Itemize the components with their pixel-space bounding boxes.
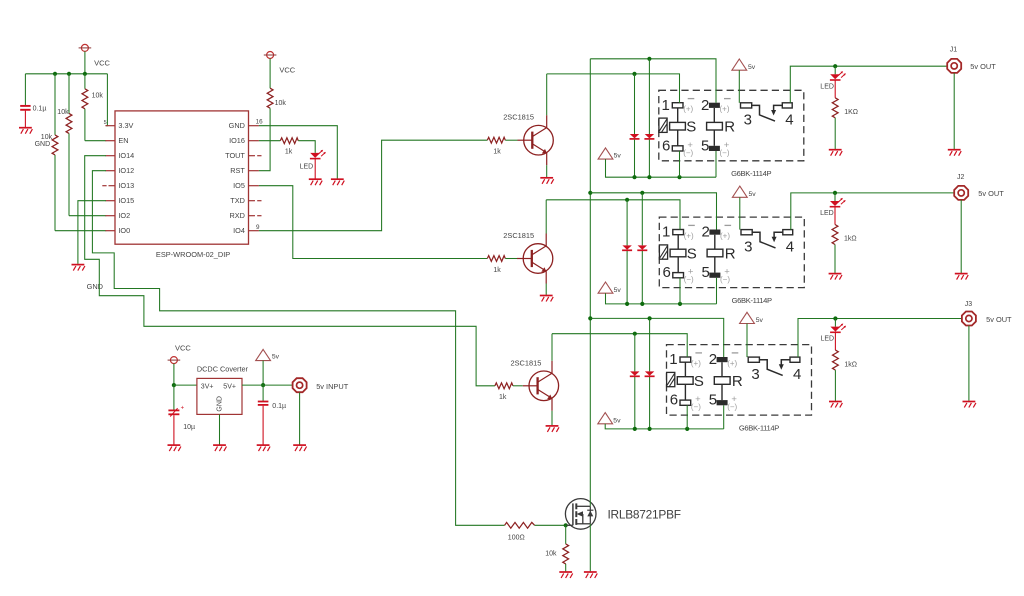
svg-text:IO0: IO0 (118, 226, 130, 235)
svg-text:IO13: IO13 (118, 181, 134, 190)
junction rail-R2 (67, 72, 71, 76)
resistor R2 10k IO2 pullup (66, 74, 106, 216)
svg-text:5v: 5v (614, 287, 622, 294)
svg-text:IO12: IO12 (118, 166, 134, 175)
resistor R3 10k IO0 pullup (52, 74, 106, 231)
svg-text:1k: 1k (499, 394, 507, 401)
wire Q2 collector to K2 pin1 (546, 200, 680, 230)
wire K3 pin6 stub (686, 405, 688, 429)
svg-text:LED: LED (820, 210, 834, 217)
svg-text:RXD: RXD (229, 211, 244, 220)
svg-text:10k: 10k (92, 92, 104, 99)
svg-text:10k: 10k (57, 109, 69, 116)
svg-text:5v: 5v (272, 354, 280, 361)
connector J3 (962, 312, 976, 326)
ground R11 (829, 150, 842, 156)
power flag VCC (79, 44, 92, 51)
wire D1 cathode (314, 159, 316, 179)
junction K2 LED tap (833, 191, 837, 195)
junction bus relay2 (588, 191, 592, 195)
MOSFET Q4 IRLB8721PBF (565, 499, 596, 530)
svg-text:ESP-WROOM-02_DIP: ESP-WROOM-02_DIP (156, 250, 230, 259)
wire R9 to gate (535, 524, 567, 526)
junction K1 LED tap (833, 64, 837, 68)
resistor R11 1Kohm (832, 98, 838, 118)
junction K3 rail d1 (633, 427, 637, 431)
ground C3 (257, 445, 270, 451)
svg-text:5v: 5v (749, 191, 757, 198)
junction VCC3-C2 (172, 383, 176, 387)
resistor R13 1kohm (833, 350, 839, 370)
wire R13 to ground (834, 370, 836, 401)
svg-text:IO14: IO14 (118, 151, 134, 160)
wire R7 to Q2 base (505, 258, 517, 260)
diode D5 K2 set flyback (622, 200, 632, 304)
diode D2 K1 set flyback (630, 74, 640, 177)
svg-text:EN: EN (118, 136, 128, 145)
ground J2 (955, 274, 968, 280)
svg-text:1k: 1k (285, 148, 293, 155)
junction K1 rail d1 (632, 175, 636, 179)
power 5v K2 rail (598, 282, 613, 293)
svg-text:TXD: TXD (230, 196, 245, 205)
ground R10 (559, 572, 572, 578)
svg-text:0.1µ: 0.1µ (33, 106, 47, 113)
power 5v K1 pin3 (732, 59, 747, 70)
svg-text:10µ: 10µ (183, 424, 195, 431)
wire Q3 emitter (551, 411, 553, 426)
svg-text:DCDC Coverter: DCDC Coverter (197, 364, 249, 373)
svg-text:5v INPUT: 5v INPUT (316, 382, 349, 391)
ground PS1 (213, 445, 226, 451)
wire K2 5v rail (606, 293, 717, 304)
wire J1 to ground (953, 73, 955, 149)
wire R5 to LED D1 (298, 141, 315, 153)
resistor R9 100ohm gate (505, 522, 535, 528)
wire VCC3 to DCDC (174, 384, 197, 386)
junction K3 S-line diode (633, 332, 637, 336)
junction K1 S-line diode (632, 72, 636, 76)
svg-text:J2: J2 (957, 174, 965, 181)
LED D10 indicator (830, 324, 846, 333)
junction K3 rail d2 (648, 427, 652, 431)
transistor Q1 2SC1815 (518, 115, 554, 165)
svg-text:5v: 5v (614, 153, 622, 160)
capacitor C1 0.1u (20, 74, 30, 127)
power 5v K1 rail (598, 148, 613, 159)
wire D10 to R13 (834, 332, 836, 350)
svg-text:1kΩ: 1kΩ (844, 361, 857, 368)
module PS1 DCDC converter (197, 378, 242, 414)
LED D7 indicator (830, 198, 846, 207)
wire J3 to ground (968, 326, 970, 401)
wire Q1 collector to K1 pin1 (547, 74, 680, 103)
wire LED3 anode (834, 319, 836, 327)
wire GND pin16 (259, 126, 337, 179)
wire K2 pin3 5v stem (739, 197, 741, 229)
capacitor C2 10u (168, 385, 184, 444)
svg-text:16: 16 (256, 119, 264, 126)
wire 3.3V riser (106, 74, 107, 126)
wire Q3 collector (551, 334, 553, 361)
junction K2 rail d1 (625, 302, 629, 306)
diode D9 K3 reset flyback (645, 318, 655, 429)
svg-text:5V+: 5V+ (223, 384, 236, 391)
svg-text:2SC1815: 2SC1815 (511, 359, 542, 368)
wire IO12 to R9 gate (92, 171, 504, 526)
wire K2 pin6 stub (679, 278, 681, 304)
wire PS1 GND pin (219, 414, 221, 444)
svg-text:LED: LED (820, 83, 834, 90)
ground Q3 (546, 426, 559, 432)
wire K1 pin4 to J1 (790, 66, 947, 103)
svg-text:1k: 1k (493, 149, 501, 156)
svg-text:2SC1815: 2SC1815 (503, 112, 534, 121)
wire K3 5v rail (605, 424, 724, 429)
power 5v K2 pin3 (732, 186, 747, 197)
svg-text:1KΩ: 1KΩ (844, 109, 858, 116)
wire K1 pin6 stub (679, 151, 681, 177)
svg-text:5v: 5v (756, 317, 764, 324)
junction K3 LED tap (833, 316, 837, 320)
ground Q1 (540, 178, 553, 184)
junction K3 R-line diode (648, 316, 652, 320)
junction K2 S-line diode (625, 198, 629, 202)
resistor R10 10k gate pulldown (563, 525, 569, 571)
relay K3 G6BK-1114P (667, 345, 812, 433)
wire R8 to Q3 base (513, 385, 523, 387)
wire LED1 anode (834, 66, 836, 74)
svg-text:VCC: VCC (279, 66, 295, 75)
svg-text:5v OUT: 5v OUT (978, 189, 1004, 198)
junction gate-R10 (564, 523, 568, 527)
ground R13 (829, 402, 842, 408)
wire J4 to ground (299, 392, 301, 444)
svg-text:0.1µ: 0.1µ (272, 403, 286, 410)
svg-text:GND: GND (216, 396, 223, 412)
wire R12 to ground (834, 245, 836, 274)
wire IO4 to R6 (259, 140, 487, 231)
svg-text:RST: RST (230, 166, 245, 175)
svg-text:5v OUT: 5v OUT (970, 62, 996, 71)
junction K2 rail pin6 (678, 302, 682, 306)
power 5v PS1 (256, 349, 271, 360)
svg-text:1k: 1k (493, 267, 501, 274)
ground D1 (309, 179, 322, 185)
wire PS1 to J4 (242, 384, 293, 386)
svg-text:10k: 10k (545, 550, 557, 557)
wire D4 to R11 (834, 80, 836, 98)
ground J4 (293, 445, 306, 451)
wire IO16 to R5 (259, 140, 280, 142)
diode D3 K1 reset flyback (644, 59, 654, 177)
wire J2 to ground (960, 200, 962, 273)
junction K3 rail pin6 (685, 427, 689, 431)
ground J1 (948, 150, 961, 156)
svg-text:5v OUT: 5v OUT (986, 315, 1012, 324)
wire LED2 anode (834, 193, 836, 201)
svg-text:100Ω: 100Ω (508, 534, 525, 541)
svg-text:TOUT: TOUT (225, 151, 245, 160)
wire Q1 emitter (546, 165, 548, 177)
wire R6 to Q1 base (505, 139, 517, 141)
power flag VCC3 (168, 357, 181, 364)
junction K2 R-line diode (640, 191, 644, 195)
LED D4 indicator (830, 71, 846, 80)
wire reset bus to K2 pin2 (590, 193, 716, 230)
svg-text:10k: 10k (41, 134, 53, 141)
wire Q4 source (589, 524, 591, 572)
svg-text:GND: GND (87, 282, 103, 291)
wire K2 pin4 to J2 (791, 193, 954, 230)
wire VCC rail (25, 73, 107, 75)
wire Q1 collector (546, 74, 548, 115)
resistor R4 10k RST pullup (259, 59, 273, 171)
wire VCC3 stem (173, 364, 175, 386)
resistor R1 10k EN pullup (82, 74, 106, 141)
ground Q2 (540, 296, 553, 302)
diode D6 K2 reset flyback (637, 193, 647, 304)
junction K2 rail d2 (640, 302, 644, 306)
capacitor C3 0.1u (258, 385, 269, 444)
resistor R5 1k LED (280, 138, 298, 144)
svg-text:J3: J3 (965, 301, 973, 308)
connector J2 (954, 186, 968, 200)
wire Q2 collector (545, 200, 547, 234)
transistor Q2 2SC1815 (517, 234, 553, 284)
connector J4 5v input (293, 378, 307, 392)
svg-text:LED: LED (300, 164, 314, 171)
svg-text:1kΩ: 1kΩ (844, 236, 857, 243)
ground C2 (168, 445, 181, 451)
wire K3 pin5 stub (723, 405, 725, 429)
wire D7 to R12 (834, 207, 836, 225)
ground IO15 (72, 265, 85, 271)
svg-text:GND: GND (229, 121, 245, 130)
diode D8 K3 set flyback (630, 334, 640, 429)
svg-text:5v: 5v (613, 417, 621, 424)
junction 5v-C3 (261, 383, 265, 387)
wire K1 5v rail (606, 159, 717, 177)
wire K3 pin3 5v stem (746, 324, 748, 358)
wire IO5 to R7 (259, 186, 487, 259)
wire Q2 emitter (545, 284, 547, 295)
ground C1 (19, 128, 32, 134)
svg-text:2SC1815: 2SC1815 (503, 231, 534, 240)
wire VCC stem (84, 51, 86, 73)
junction K1 rail pin6 (677, 175, 681, 179)
wire K2 pin5 stub (716, 278, 718, 304)
svg-text:3.3V: 3.3V (118, 121, 133, 130)
connector J1 (947, 59, 961, 73)
ground R12 (829, 274, 842, 280)
wire Q3 collector to K3 pin1 (552, 334, 687, 357)
power flag VCC2 (264, 52, 277, 59)
wire K1 pin5 stub (715, 151, 717, 177)
svg-text:5: 5 (104, 120, 107, 126)
svg-text:IO5: IO5 (233, 181, 245, 190)
svg-text:LED: LED (821, 336, 835, 343)
IC U1 ESP-WROOM-02_DIP (102, 111, 263, 244)
junction K1 rail d2 (647, 175, 651, 179)
svg-text:VCC: VCC (94, 58, 110, 67)
svg-text:VCC: VCC (175, 343, 191, 352)
wire K3 pin4 to J3 (798, 319, 962, 358)
svg-text:3V+: 3V+ (201, 384, 214, 391)
svg-text:IO4: IO4 (233, 226, 245, 235)
ground J3 (963, 402, 976, 408)
svg-text:10k: 10k (275, 100, 287, 107)
LED D1 (310, 150, 326, 159)
resistor R12 1kohm (832, 225, 838, 245)
svg-text:5v: 5v (748, 64, 756, 71)
transistor Q3 2SC1815 (523, 361, 559, 411)
wire IO14 to R8 (85, 156, 495, 386)
wire R11 to ground (834, 118, 836, 149)
svg-text:IO16: IO16 (229, 136, 245, 145)
resistor R8 1k base Q3 (495, 383, 513, 389)
wire IO15 to ground (78, 201, 106, 264)
svg-text:IRLB8721PBF: IRLB8721PBF (608, 507, 681, 521)
svg-text:IO2: IO2 (118, 211, 130, 220)
relay K1 G6BK-1114P (659, 90, 804, 178)
junction K1 R-line diode (647, 57, 651, 61)
junction bus relay3 (588, 316, 592, 320)
relay K2 G6BK-1114P (659, 217, 804, 305)
svg-text:J1: J1 (950, 47, 958, 54)
wire reset bus to K3 pin2 (590, 318, 723, 357)
svg-text:+: + (181, 405, 185, 411)
power 5v K3 rail (598, 413, 613, 424)
resistor R7 1k base Q2 (487, 256, 505, 262)
svg-text:IO15: IO15 (118, 196, 134, 205)
wire reset bus to K1 pin2 (590, 59, 716, 103)
ground pin16 (331, 179, 344, 185)
svg-text:9: 9 (256, 224, 260, 231)
power 5v K3 pin3 (740, 312, 755, 323)
wire reset bus drain (589, 59, 591, 507)
wire K1 pin3 5v stem (738, 70, 740, 103)
junction rail-R3 (53, 72, 57, 76)
ground Q4 source (584, 572, 597, 578)
wire 5v PS1 stem (262, 361, 264, 386)
junction rail-R1 (83, 72, 87, 76)
svg-text:GND: GND (35, 141, 51, 148)
resistor R6 1k base Q1 (487, 137, 505, 143)
